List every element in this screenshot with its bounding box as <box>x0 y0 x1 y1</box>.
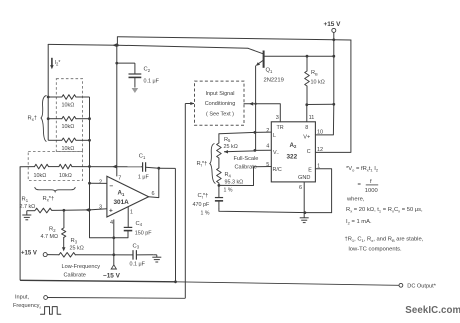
svg-text:10kΩ: 10kΩ <box>34 173 47 179</box>
svg-text:L: L <box>273 133 276 139</box>
junction at rails with current arrow <box>112 43 118 47</box>
label E <box>308 167 312 173</box>
wire: output drop vertical <box>174 168 176 281</box>
terminal +15V left <box>43 253 47 257</box>
svg-text:Low-Frequency: Low-Frequency <box>62 264 101 270</box>
svg-text:V+: V+ <box>303 134 310 140</box>
junction dots on right Rx bus <box>88 117 91 141</box>
label 10k row3 <box>62 146 75 152</box>
junction dot pin6 gnd <box>304 211 307 214</box>
note: fraction 1000 <box>365 188 378 194</box>
label Input, <box>15 295 29 301</box>
junction dot -15V row <box>112 253 115 256</box>
label 10k row1 <box>62 103 75 109</box>
svg-text:†R1, C1, Rx, and RB are stable: †R1, C1, Rx, and RB are stable, <box>345 237 424 243</box>
current arrow on feedback at pin7 crossing <box>112 165 117 169</box>
svg-text:11: 11 <box>309 115 315 121</box>
square wave glyph <box>41 307 61 315</box>
label V+ <box>303 134 310 140</box>
svg-text:4: 4 <box>266 144 269 150</box>
label Full-Scale <box>234 156 259 162</box>
pin 6 output wire <box>149 168 159 197</box>
label 25k R5 <box>224 144 238 150</box>
pin 4 number <box>266 144 269 150</box>
block: Input Signal Conditioning dashed box <box>195 81 245 125</box>
ground at R1 <box>22 211 31 220</box>
svg-text:10 kΩ: 10 kΩ <box>311 79 325 85</box>
label C1 <box>139 154 146 160</box>
wire: input line <box>48 297 186 300</box>
junction dot V- lead <box>254 149 257 152</box>
potentiometer R3 25k <box>47 253 75 258</box>
svg-text:( See Text ): ( See Text ) <box>206 112 234 118</box>
junction dot C2 branch <box>115 62 118 65</box>
label TR <box>277 125 284 131</box>
resistor RB 10k <box>305 56 310 104</box>
junction dot RB bottom right <box>332 103 335 106</box>
wire: +15V down to pin10 <box>315 40 333 135</box>
svg-text:1000: 1000 <box>365 188 378 194</box>
resistor Rx series-1 10k <box>35 164 49 169</box>
junction dot L lead <box>254 131 257 134</box>
svg-text:R2: R2 <box>49 227 56 233</box>
svg-text:2N2219: 2N2219 <box>264 78 284 84</box>
wire: feedback line mid segment <box>49 166 59 168</box>
wire: upper +15V rail <box>117 37 351 40</box>
label Frequency f <box>13 303 41 310</box>
wire: C2 branch <box>117 63 135 74</box>
label See Text <box>206 112 234 118</box>
pin 4 label <box>110 220 113 226</box>
label R/C <box>273 167 282 173</box>
label L <box>273 133 276 139</box>
svg-text:2.7 kΩ: 2.7 kΩ <box>20 204 36 210</box>
wire: pin 4 V- lead <box>255 149 271 151</box>
svg-text:301A: 301A <box>114 199 130 206</box>
label V- <box>273 150 280 156</box>
wire: RB bottom tie <box>307 103 334 105</box>
label DC Output* <box>407 284 436 290</box>
label R1 <box>22 197 29 203</box>
wire: Q1 emitter <box>256 60 264 150</box>
junction dot pin4 row <box>112 236 115 239</box>
wire: wiper to V- <box>224 150 255 153</box>
svg-text:0.1 μF: 0.1 μF <box>144 79 160 85</box>
svg-text:Q1: Q1 <box>266 68 274 74</box>
resistor R4 95.3k <box>217 168 222 197</box>
wire: lower +V rail from Rx bus corner to Q1 collector <box>48 44 248 48</box>
wire: bottom frame <box>20 280 175 282</box>
junction dot R4 bottom <box>218 184 221 187</box>
label 150pF <box>135 230 152 236</box>
svg-text:−15 V: −15 V <box>103 273 121 280</box>
svg-text:C: C <box>307 149 311 155</box>
label A2 <box>290 142 297 149</box>
label plus input <box>109 207 113 214</box>
dashed box around Rx parallel resistors <box>56 79 82 152</box>
wire: pin 2 L lead <box>219 132 271 134</box>
terminal input <box>44 296 48 300</box>
note: fraction bar <box>366 184 378 186</box>
wire: R1 to bus <box>64 209 90 211</box>
label 95.3k <box>225 179 244 185</box>
capacitor Cx 470pF <box>215 198 223 209</box>
svg-text:12: 12 <box>317 147 323 153</box>
label R3 <box>71 238 78 244</box>
wire: +15V stem <box>333 32 335 39</box>
brace timing chain <box>210 144 216 184</box>
pin 6 number <box>299 185 302 191</box>
label 0.1uF C2 <box>144 79 160 85</box>
label -15V <box>103 273 121 280</box>
pin 1 number <box>317 163 320 169</box>
wire: left frame vertical <box>19 167 21 281</box>
pin 7 label <box>118 175 121 181</box>
svg-text:low-TC components.: low-TC components. <box>349 247 403 253</box>
wire: feedback line to C1 <box>72 166 141 168</box>
svg-text:+15 V: +15 V <box>324 21 342 28</box>
label C2 <box>144 67 151 73</box>
svg-text:322: 322 <box>287 153 298 160</box>
svg-text:6: 6 <box>299 185 302 191</box>
svg-text:10kΩ: 10kΩ <box>62 146 75 152</box>
wire: conditioning box to pin3 TR <box>244 104 280 122</box>
svg-text:Full-Scale: Full-Scale <box>234 156 259 162</box>
wire: Q1 base lead <box>264 55 334 57</box>
wire: Rx right bus vertical <box>89 97 91 238</box>
ground at A2 <box>300 218 309 223</box>
terminal DC output <box>399 283 403 287</box>
label 0.1uF C3 <box>130 262 146 268</box>
label 1pct Cx <box>201 211 210 217</box>
svg-text:SeekIC.com: SeekIC.com <box>405 305 460 316</box>
svg-text:R5: R5 <box>224 137 231 143</box>
label R4 <box>225 172 232 178</box>
junction dot pin2-bus <box>88 182 91 185</box>
svg-text:Ct*†: Ct*† <box>198 193 209 200</box>
capacitor C1 <box>141 162 159 172</box>
pin 1 label <box>130 209 133 215</box>
wire: left vertical from corner down to Rx network <box>47 44 49 140</box>
svg-text:3: 3 <box>99 205 102 211</box>
wire: pin 6 lead <box>303 182 305 218</box>
pin 2 wire <box>90 182 107 184</box>
wire: riser joining rails at junction <box>116 37 118 46</box>
label Conditioning <box>205 101 236 107</box>
junction dots on left Rx bus <box>47 96 50 121</box>
label GND <box>298 175 310 181</box>
note: equals <box>358 182 362 188</box>
note: Rx equation <box>346 207 423 213</box>
label +15V top <box>324 21 342 28</box>
label R2 <box>49 227 56 233</box>
svg-text:2: 2 <box>99 179 102 185</box>
label Calibrate FS <box>235 164 257 170</box>
svg-text:Input Signal: Input Signal <box>205 91 234 97</box>
label 10k row2 <box>62 124 75 130</box>
label I2* <box>55 60 61 66</box>
svg-text:150 pF: 150 pF <box>135 230 152 236</box>
svg-text:Rx†: Rx† <box>28 116 38 122</box>
svg-text:*Vo = fRxt1 I2: *Vo = fRxt1 I2 <box>346 166 379 172</box>
svg-text:C3: C3 <box>133 243 140 249</box>
svg-text:C4: C4 <box>136 221 143 227</box>
label Rx* dagger <box>43 196 55 203</box>
svg-text:10kΩ: 10kΩ <box>62 103 75 109</box>
svg-text:R/C: R/C <box>273 167 282 173</box>
note: dagger line1 <box>345 237 424 243</box>
svg-text:10: 10 <box>317 130 323 136</box>
svg-text:Input,: Input, <box>15 295 29 301</box>
ground at C3 <box>152 255 161 262</box>
label 4.7M <box>41 234 59 240</box>
svg-text:Conditioning: Conditioning <box>205 101 236 107</box>
wire: into conditioning box <box>185 102 194 105</box>
junction dot RB top <box>306 55 309 58</box>
junction dot output drop <box>174 280 177 283</box>
svg-text:Rx = 20 kΩ, t1 = RxCx = 50 μs,: Rx = 20 kΩ, t1 = RxCx = 50 μs, <box>346 207 423 213</box>
wire: pin 5 R/C lead <box>219 167 271 186</box>
resistor Rx series-2 10k <box>59 164 72 169</box>
pin 2 label <box>99 179 102 185</box>
underbrace Rx series pair <box>35 187 76 192</box>
svg-text:C2: C2 <box>144 67 151 73</box>
note: where <box>346 196 365 202</box>
junction dot RB bottom <box>305 103 308 106</box>
svg-text:+15 V: +15 V <box>21 250 37 256</box>
svg-text:Frequencyf: Frequencyf <box>13 303 41 310</box>
svg-text:0.1 μF: 0.1 μF <box>130 262 146 268</box>
resistor Rx row1 10k <box>48 95 89 100</box>
op-amp A1 triangle <box>107 176 149 217</box>
pin 3 label <box>99 205 102 211</box>
label RB <box>311 70 318 76</box>
junction dot bus-feedback <box>88 165 91 168</box>
label 322 <box>287 153 298 160</box>
wire: -15V row <box>75 254 133 256</box>
wire: rail to pin12 C <box>315 40 351 152</box>
label 301A <box>114 199 130 206</box>
svg-text:R1: R1 <box>22 197 29 203</box>
note: Vo formula line1 <box>346 166 379 172</box>
capacitor C4 <box>124 207 133 238</box>
svg-text:4.7 MΩ: 4.7 MΩ <box>41 234 59 240</box>
wire: Cx to ground rail <box>219 209 332 213</box>
junction dot +15V rail <box>332 38 335 41</box>
svg-text:6: 6 <box>152 191 155 197</box>
wire: DC output line <box>176 282 399 286</box>
svg-text:2: 2 <box>266 128 269 134</box>
label 2.7k <box>20 204 36 210</box>
junction pin3-bus with arrow <box>85 208 91 212</box>
svg-text:Rx*†: Rx*† <box>43 196 55 203</box>
dashed box around Rx series resistors <box>28 152 82 181</box>
wire: feedback line left segment <box>20 166 34 168</box>
note: dagger line2 <box>349 247 403 253</box>
label Rx dagger <box>28 116 38 122</box>
wire: input riser to conditioning box <box>184 104 186 299</box>
svg-text:R3: R3 <box>71 238 78 244</box>
terminal -15V triangle <box>111 265 116 269</box>
label 1uF <box>138 175 150 181</box>
wire: pin E wrap <box>315 169 331 213</box>
label 1pct R4 <box>224 187 233 193</box>
svg-text:+: + <box>109 207 113 214</box>
pin 3 number <box>276 115 279 121</box>
svg-text:10kΩ: 10kΩ <box>59 173 72 179</box>
wire: bus to pin4/C4 row <box>90 237 129 239</box>
svg-text:7: 7 <box>118 175 121 181</box>
capacitor C3 <box>133 250 153 260</box>
wire: feedback to output corner <box>159 167 176 169</box>
resistor R2 4.7M <box>62 210 66 248</box>
resistor Rx row2 10k <box>48 116 89 121</box>
label 10k RB <box>311 79 325 85</box>
svg-text:−: − <box>109 183 113 190</box>
svg-text:V−: V− <box>273 150 280 156</box>
pin 2 number <box>266 128 269 134</box>
timer IC A2 box <box>271 122 315 182</box>
svg-text:25 kΩ: 25 kΩ <box>224 144 238 150</box>
svg-text:E: E <box>308 167 312 173</box>
pin 5 number <box>266 162 269 168</box>
svg-text:25 kΩ: 25 kΩ <box>70 245 84 251</box>
junction dot output-feedback <box>157 167 160 170</box>
potentiometer R5 25k <box>217 134 222 168</box>
pin 12 number <box>317 147 323 153</box>
pin 3 wire <box>90 209 107 210</box>
svg-text:I2 = 1 mA.: I2 = 1 mA. <box>346 219 372 225</box>
svg-text:I2*: I2* <box>55 60 61 66</box>
capacitor C2 <box>129 74 142 88</box>
terminal +15V top <box>332 28 336 32</box>
svg-text:Calibrate: Calibrate <box>64 272 86 278</box>
label Rt* dagger <box>197 161 208 168</box>
svg-text:Calibrate: Calibrate <box>235 164 257 170</box>
svg-text:8: 8 <box>305 125 308 131</box>
svg-text:1 %: 1 % <box>224 187 233 193</box>
svg-text:Rt*†: Rt*† <box>197 161 208 168</box>
junction dot R1-R2 <box>63 209 66 212</box>
pin 10 number <box>317 130 323 136</box>
pin 11 number <box>309 115 315 121</box>
pin 7 wire <box>116 45 118 176</box>
brace for Rx parallel group <box>41 96 47 142</box>
svg-text:GND: GND <box>298 175 310 181</box>
note: I2 equation <box>346 219 372 225</box>
svg-text:1 %: 1 % <box>201 211 210 217</box>
label 10k series-1 <box>34 173 47 179</box>
label Low-Frequency <box>62 264 101 270</box>
label 10k series-2 <box>59 173 72 179</box>
label Ct dagger <box>198 193 209 200</box>
label 8 <box>305 125 308 131</box>
label 2N2219 <box>264 78 284 84</box>
wire: Q1 collector <box>248 48 263 54</box>
watermark SeekIC.com <box>405 305 460 316</box>
svg-text:3: 3 <box>276 115 279 121</box>
svg-text:where,: where, <box>346 196 365 202</box>
label minus input <box>109 183 113 190</box>
svg-text:4: 4 <box>110 220 113 226</box>
label Q1 <box>266 68 274 74</box>
label Calibrate <box>64 272 86 278</box>
svg-text:10kΩ: 10kΩ <box>62 124 75 130</box>
arrow into conditioning output <box>249 102 253 106</box>
svg-text:R4: R4 <box>225 172 232 178</box>
svg-text:1 μF: 1 μF <box>138 175 150 181</box>
svg-text:DC Output*: DC Output* <box>407 284 436 290</box>
svg-text:95.3 kΩ: 95.3 kΩ <box>225 179 244 185</box>
label +15V left <box>21 250 37 256</box>
wiper arrow of R3 pot <box>62 247 66 251</box>
svg-text:RB: RB <box>311 70 318 76</box>
label 25k R3 <box>70 245 84 251</box>
label A1 <box>118 190 125 197</box>
label C3 <box>133 243 140 249</box>
note: fraction f <box>370 179 372 185</box>
junction dot emitter-TR <box>254 103 256 105</box>
junction dot base wire right <box>332 55 335 58</box>
resistor Rx row3 10k <box>48 138 89 143</box>
label 470pF <box>193 202 210 208</box>
common terminal below C2 <box>132 88 139 93</box>
wire: pin 11 lead <box>306 105 308 122</box>
svg-text:470 pF: 470 pF <box>193 202 210 208</box>
svg-text:1: 1 <box>130 209 133 215</box>
pin 4 wire <box>113 219 115 264</box>
label C pin <box>307 149 311 155</box>
label Input Signal <box>205 91 234 97</box>
label C4 <box>136 221 143 227</box>
svg-text:TR: TR <box>277 125 284 131</box>
svg-text:C1: C1 <box>139 154 146 160</box>
transistor Q1 base bar <box>263 51 265 68</box>
resistor R1 2.7k <box>27 208 64 213</box>
current arrow I2 <box>50 58 54 70</box>
pin 6 label <box>152 191 155 197</box>
label R5 <box>224 137 231 143</box>
